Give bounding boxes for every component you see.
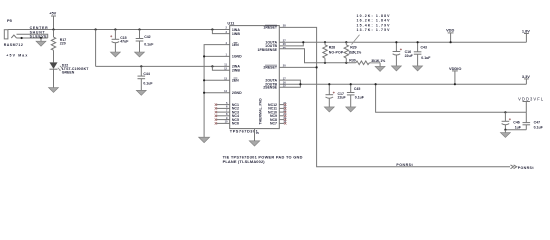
junction bottom link	[504, 129, 506, 131]
svg-text:C42: C42	[144, 35, 150, 39]
power VDD3VFL	[518, 96, 544, 112]
svg-text:NC7: NC7	[270, 122, 277, 126]
junction +5V at C15	[114, 28, 116, 30]
capacitor C43 0.1uF	[414, 42, 432, 66]
pin number 8	[226, 112, 228, 116]
connector P5 reference label	[7, 18, 13, 23]
junction VDDIO	[454, 83, 456, 85]
svg-text:1GND: 1GND	[232, 55, 242, 59]
resistor R17 220	[51, 30, 66, 51]
pin name 1OUTA	[265, 41, 277, 45]
svg-text:RASM712: RASM712	[4, 43, 23, 47]
ground (thermal pad)	[249, 141, 260, 146]
pin name 1INA	[232, 28, 240, 32]
svg-text:1RESET: 1RESET	[263, 26, 277, 30]
no-connect NC5 stub	[215, 118, 230, 120]
svg-text:C46: C46	[513, 121, 519, 125]
pin number 5	[226, 101, 228, 105]
wire C46-C47 bottom link	[505, 129, 526, 131]
pin name NC4	[232, 114, 239, 118]
capacitor C44 0.1uF	[138, 66, 154, 90]
wire LED to ground	[53, 69, 55, 87]
no-connect NC11 stub	[279, 107, 286, 109]
svg-text:NC6: NC6	[232, 122, 239, 126]
wire 1OUT rail (VDD 1.8V net)	[279, 42, 526, 46]
capacitor C42 0.1uF	[136, 30, 155, 53]
junction 2IN at C44	[140, 65, 142, 67]
junction C45	[350, 83, 352, 85]
pin name NC3	[232, 110, 239, 114]
wire +5V rail (CENTER net)	[8, 29, 230, 31]
svg-text:P5: P5	[7, 18, 13, 23]
ground (R30)	[375, 63, 385, 72]
no-connect NC7 stub	[279, 122, 286, 124]
pin name NC9	[270, 114, 277, 118]
capacitor C45 0.1uF	[347, 84, 365, 107]
pin number 22	[283, 108, 286, 112]
wire 1FB/SENSE net	[279, 49, 356, 63]
svg-text:2GND: 2GND	[232, 91, 242, 95]
capacitor C47 0.1uF	[523, 112, 544, 129]
no-connect NC10 stub	[279, 111, 286, 113]
wire VDD3VFL branch	[376, 84, 527, 112]
svg-text:C43: C43	[421, 45, 427, 49]
pin name NC11	[268, 107, 277, 111]
junction 1OUTB join	[302, 41, 304, 43]
junction R28 bottom	[324, 62, 326, 64]
pin name NC10	[268, 110, 277, 114]
svg-text:NO-POP: NO-POP	[329, 51, 344, 55]
pin name NC7	[270, 122, 277, 126]
pin number 24	[283, 101, 286, 105]
svg-text:U11: U11	[227, 21, 235, 26]
pin number 9	[226, 116, 228, 120]
net label PONRSt (mid)	[396, 163, 413, 167]
resistor R28 NO-POP	[323, 42, 344, 63]
pin number 15	[283, 84, 286, 88]
connector P5 barrel jack symbol RASM712	[4, 30, 28, 58]
junction C17	[328, 83, 330, 85]
svg-text:+5V Max: +5V Max	[6, 54, 27, 58]
pin number 18	[283, 120, 286, 124]
svg-text:R28: R28	[329, 45, 335, 49]
junction EN net at 1GND	[203, 55, 205, 57]
pin name THERMAL_PAD	[259, 98, 263, 125]
no-connect NC8 stub	[279, 118, 286, 120]
svg-text:10.2K, 1%: 10.2K, 1%	[348, 50, 362, 54]
pin name 2GND	[232, 91, 242, 95]
power 3.3V termination	[522, 74, 530, 84]
svg-text:0.1uF: 0.1uF	[144, 43, 154, 47]
junction sleeve-ground	[40, 37, 42, 39]
power 1.8V termination	[522, 29, 530, 43]
junction R29 top	[345, 41, 347, 43]
no-connect NC6 stub	[215, 122, 230, 124]
pin label SLEEVE	[30, 34, 48, 38]
wire thermal pad to ground	[254, 129, 256, 141]
pin number 23	[283, 105, 286, 109]
ground (C16)	[391, 66, 401, 71]
wire 1RESET net to PONRSt	[279, 27, 510, 166]
no-connect NC1 stub	[215, 103, 230, 105]
pin number 4	[226, 41, 228, 45]
pin number 1	[226, 53, 228, 57]
pin number 6	[226, 105, 228, 109]
svg-text:3.3V: 3.3V	[522, 74, 530, 79]
svg-text:C47: C47	[534, 120, 540, 124]
svg-text:PONRSt: PONRSt	[396, 163, 413, 167]
pin number 10	[225, 120, 228, 124]
ground (C17)	[324, 107, 334, 112]
junction +5V at R17	[52, 28, 54, 30]
svg-text:C44: C44	[143, 72, 149, 76]
svg-text:1EN: 1EN	[232, 43, 239, 47]
svg-text:1FB/SENSE: 1FB/SENSE	[258, 48, 278, 52]
junction EN net at 2EN	[203, 79, 205, 81]
junction R29 bottom	[345, 62, 347, 64]
pin name NC6	[232, 122, 239, 126]
pin number 3	[226, 30, 228, 34]
pin name NC2	[232, 107, 239, 111]
power VDD	[446, 28, 454, 43]
pin name 2OUTA	[265, 78, 277, 82]
pin name 1OUTB	[265, 44, 277, 48]
pin number 17	[283, 76, 286, 80]
svg-text:2SENSE: 2SENSE	[263, 86, 277, 90]
junction sleeve-chevron	[21, 37, 23, 39]
junction C43	[417, 41, 419, 43]
junction C46	[504, 111, 506, 113]
off-page connector PONRSt	[511, 165, 535, 170]
svg-text:PLANE (TI-SLMA002): PLANE (TI-SLMA002)	[223, 159, 266, 164]
note text TIE power pad	[223, 155, 303, 165]
pin number 20	[283, 64, 286, 68]
pin name 2SENSE	[263, 86, 277, 90]
svg-text:1.8V: 1.8V	[522, 29, 530, 34]
svg-text:47uF: 47uF	[120, 40, 129, 44]
svg-text:2INB: 2INB	[232, 69, 240, 73]
pin number 13	[224, 77, 227, 81]
svg-text:VDD: VDD	[446, 28, 454, 33]
wire R17 to LED	[53, 50, 55, 62]
pin name 2RESET	[263, 65, 277, 70]
pin name 2INA	[232, 65, 240, 69]
svg-text:1INB: 1INB	[232, 32, 240, 36]
pin name 2INB	[232, 69, 240, 73]
pin number 29	[256, 131, 259, 135]
pin name NC12	[268, 103, 277, 107]
capacitor C16 22uF	[393, 42, 414, 66]
pin number 16	[283, 80, 286, 84]
pin number 11	[224, 63, 227, 67]
pin name NC1	[232, 103, 239, 107]
ground (C42)	[135, 52, 145, 57]
svg-text:VDD3VFL: VDD3VFL	[518, 96, 544, 101]
ground (LED)	[49, 88, 59, 93]
svg-text:PONRSt: PONRSt	[518, 166, 535, 170]
svg-text:R30: R30	[349, 58, 355, 62]
svg-text:VDDIO: VDDIO	[449, 66, 461, 71]
ground (C15)	[110, 52, 120, 57]
ground (EN/GND net)	[199, 137, 210, 143]
junction 2OUT join	[299, 83, 301, 85]
svg-text:0.1uF: 0.1uF	[355, 96, 365, 100]
wire branch +5V to 2IN rail	[95, 30, 97, 67]
resistor R30 30.1K 1%	[349, 58, 386, 64]
power +5V	[49, 11, 56, 30]
pin name 1RESET	[263, 25, 277, 30]
pin label CENTER	[30, 26, 48, 30]
pin name 2EN	[232, 78, 239, 83]
power VDDIO	[449, 66, 461, 84]
svg-text:2RESET: 2RESET	[263, 66, 277, 70]
pin name 1INB	[232, 32, 240, 36]
svg-text:1uF: 1uF	[515, 126, 522, 130]
svg-text:220: 220	[60, 42, 66, 46]
op-amp U11 regulator TPS767D301 box	[227, 21, 279, 134]
pin number 21	[283, 112, 286, 116]
pin label SHUNT	[30, 31, 46, 35]
pin number 14	[224, 89, 227, 93]
pin number 28	[283, 24, 286, 28]
svg-text:0.1uF: 0.1uF	[143, 81, 153, 85]
wire 2OUT rail (VDDIO 3.3V net)	[279, 80, 526, 87]
pin number 12	[224, 66, 227, 70]
pin number 27	[283, 38, 286, 42]
capacitor C17 22uF	[326, 84, 347, 107]
svg-text:22uF: 22uF	[405, 54, 414, 58]
resistor R29 10.2K 1%	[344, 42, 362, 63]
ground (C44)	[136, 90, 146, 95]
junction +5V at C42	[138, 28, 140, 30]
no-connect NC3 stub	[215, 111, 230, 113]
svg-text:2EN: 2EN	[232, 79, 239, 83]
wire SLEEVE	[17, 37, 48, 39]
no-connect NC9 stub	[279, 115, 286, 117]
svg-text:C45: C45	[354, 87, 360, 91]
pin number 19	[283, 116, 286, 120]
pin name 2OUTB	[265, 83, 277, 87]
pin number 25	[283, 46, 286, 50]
junction VDD3VFL branch	[375, 83, 377, 85]
LED D22 LTST-C190GKT GREEN	[50, 62, 90, 74]
pin number 7	[226, 108, 228, 112]
ground (C43)	[413, 66, 423, 71]
wire EN/GND vertical net	[204, 45, 230, 138]
wire 2IN rail	[96, 65, 230, 67]
svg-text:THERMAL_PAD: THERMAL_PAD	[259, 98, 263, 125]
svg-text:0.1uF: 0.1uF	[421, 56, 431, 60]
junction 2RESET on reset vertical	[316, 66, 318, 68]
capacitor C46 1uF	[502, 112, 522, 129]
pin name 1GND	[232, 55, 242, 59]
svg-text:+5V: +5V	[49, 11, 56, 16]
junction +5V at branch	[95, 28, 97, 30]
no-connect NC12 stub	[279, 103, 286, 105]
junction 2IN at 2INB drop	[211, 65, 213, 67]
wire 1INB link	[212, 30, 229, 34]
wire SHUNT	[17, 34, 48, 38]
svg-text:R29: R29	[350, 45, 356, 49]
junction VDD	[450, 41, 452, 43]
svg-text:0.1uF: 0.1uF	[534, 126, 544, 130]
junction +5V at 1IN	[211, 28, 213, 30]
pin name NC8	[270, 118, 277, 122]
pin number 2	[226, 26, 228, 30]
wire 2INB link	[212, 66, 229, 70]
ground (C46/C47)	[500, 130, 510, 138]
svg-text:22uF: 22uF	[338, 95, 347, 99]
annotation text resistor options	[357, 14, 391, 32]
no-connect NC4 stub	[215, 115, 230, 117]
capacitor C15 47uF	[110, 30, 129, 53]
junction C16	[395, 41, 397, 43]
ground (C45)	[346, 107, 356, 112]
svg-text:30.1K, 1%: 30.1K, 1%	[371, 59, 386, 63]
annotation leader line	[352, 35, 360, 45]
junction R28 top	[324, 41, 326, 43]
pin name 1EN	[232, 42, 239, 47]
pin name NC5	[232, 118, 239, 122]
ground (jack)	[36, 38, 46, 46]
pin number 26	[283, 42, 286, 46]
junction EN net at 2GND	[203, 92, 205, 94]
no-connect NC2 stub	[215, 107, 230, 109]
svg-text:GREEN: GREEN	[62, 71, 75, 75]
pin name 1FB/SENSE	[258, 48, 278, 52]
